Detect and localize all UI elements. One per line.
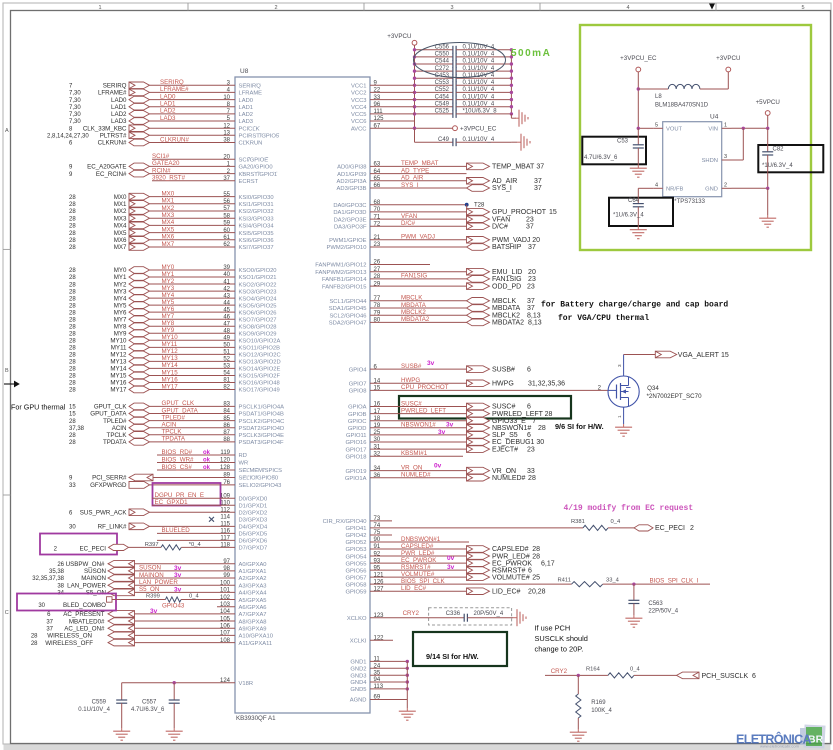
ellipse annotation around C556/C550/C544 — [414, 43, 506, 78]
svg-text:HWPG: HWPG — [401, 377, 420, 384]
svg-text:1: 1 — [724, 122, 727, 128]
off-page connector LAD0 — [129, 96, 150, 103]
U8 left pin names — [239, 84, 285, 687]
svg-text:MY12: MY12 — [110, 352, 127, 359]
svg-text:C552: C552 — [435, 87, 450, 93]
svg-text:MX5: MX5 — [114, 230, 127, 237]
svg-text:MY7: MY7 — [162, 313, 175, 320]
svg-text:TPCLK: TPCLK — [162, 429, 183, 436]
svg-text:FANPWM1/GPIO12: FANPWM1/GPIO12 — [315, 263, 366, 269]
svg-text:D/C#: D/C# — [401, 220, 416, 227]
svg-text:ACIN: ACIN — [162, 422, 177, 429]
capacitor C553 — [415, 84, 453, 86]
ground — [623, 424, 625, 427]
svg-text:28: 28 — [69, 231, 76, 237]
svg-text:BLED_COMBO: BLED_COMBO — [63, 602, 106, 609]
svg-text:*2N7002EPT_SC70: *2N7002EPT_SC70 — [647, 393, 703, 400]
off-page connector GPUT_CLK — [129, 403, 150, 410]
svg-text:C64: C64 — [628, 198, 640, 204]
svg-text:33_4: 33_4 — [606, 578, 620, 584]
wire net RCIN# — [150, 173, 236, 175]
top border marker arrow — [709, 4, 715, 10]
svg-text:KSO10/GPIO2A: KSO10/GPIO2A — [239, 339, 281, 345]
svg-text:MY3: MY3 — [114, 288, 127, 295]
svg-text:A10/GPXA10: A10/GPXA10 — [239, 634, 273, 640]
svg-text:MX1: MX1 — [162, 198, 175, 205]
svg-text:NBSWON1#: NBSWON1# — [492, 425, 531, 432]
svg-text:C272: C272 — [435, 66, 450, 72]
svg-text:C49: C49 — [438, 137, 450, 143]
svg-text:30: 30 — [536, 439, 544, 446]
wire net LAD0 — [150, 99, 236, 101]
off-page connector NUMLED# — [467, 474, 490, 481]
svg-text:PWR_LED#: PWR_LED# — [401, 550, 435, 557]
svg-text:MY1: MY1 — [162, 271, 175, 278]
svg-text:C559: C559 — [92, 700, 107, 706]
wire net KBSMI#1 — [370, 455, 463, 457]
svg-text:A3/GPXA3: A3/GPXA3 — [239, 583, 267, 589]
svg-text:AD0/GPI38: AD0/GPI38 — [337, 165, 366, 171]
wire net GPU_PROCHOT — [370, 211, 467, 213]
wire VIN net — [767, 115, 769, 128]
wire net RF_LINK# — [150, 525, 236, 527]
svg-text:*1U/6.3V_4: *1U/6.3V_4 — [613, 213, 644, 219]
svg-text:KBSMI#1: KBSMI#1 — [401, 450, 428, 457]
purple highlight box EC_PECI — [40, 534, 117, 555]
wire net MY2 — [150, 283, 236, 285]
wire net PWRLED_LEFT — [370, 413, 467, 415]
svg-text:AVCC: AVCC — [351, 126, 367, 132]
svg-text:28: 28 — [69, 339, 76, 345]
svg-text:EC_GPXD1: EC_GPXD1 — [155, 499, 189, 506]
svg-text:HWPG: HWPG — [492, 381, 514, 388]
off-page connector MY1 — [129, 274, 150, 281]
wire net VFAN — [370, 218, 467, 220]
svg-text:8,13: 8,13 — [527, 312, 541, 319]
svg-text:0.1U/10V_4: 0.1U/10V_4 — [463, 59, 495, 65]
svg-text:37,38: 37,38 — [69, 426, 85, 432]
svg-text:+3VPCU_EC: +3VPCU_EC — [620, 55, 657, 62]
svg-text:VFAN: VFAN — [401, 213, 417, 220]
no-connect X pin 114 — [209, 517, 214, 522]
svg-text:MY9: MY9 — [162, 327, 175, 334]
off-page connector GPIO33_E — [467, 417, 490, 424]
svg-text:SDA2/GPIO47: SDA2/GPIO47 — [329, 321, 367, 327]
svg-text:PCIRST/GPIO5: PCIRST/GPIO5 — [239, 134, 280, 140]
svg-text:PWM_VADJ: PWM_VADJ — [401, 234, 435, 241]
off-page connector TPDATA — [129, 439, 150, 446]
ground — [511, 141, 517, 143]
off-page connector SERIRQ — [129, 82, 150, 89]
svg-text:FANPWM2/GPIO13: FANPWM2/GPIO13 — [315, 270, 366, 276]
svg-text:GPIOB: GPIOB — [348, 412, 366, 418]
svg-text:CAPSLED#: CAPSLED# — [492, 546, 529, 553]
wire net TPCLK — [150, 434, 236, 436]
wire net MX7 — [150, 246, 236, 248]
svg-text:GPIO33_E: GPIO33_E — [492, 418, 526, 425]
off-page connector MX3 — [129, 215, 150, 222]
wire stub XCLKI — [370, 639, 393, 641]
ground — [513, 617, 517, 619]
left border marker arrow — [4, 383, 14, 385]
wire net MY17 — [150, 389, 236, 391]
svg-text:LID_EC#: LID_EC# — [401, 585, 427, 592]
svg-text:SCL1/GPIO44: SCL1/GPIO44 — [329, 299, 367, 305]
off-page connector LFRAME# — [129, 89, 150, 96]
wire net BATSHIP — [370, 246, 467, 248]
off-page connector AD_AIR — [467, 178, 490, 185]
svg-text:R164: R164 — [586, 667, 601, 673]
svg-text:A6/GPXA6: A6/GPXA6 — [239, 605, 267, 611]
svg-text:3v: 3v — [446, 422, 454, 429]
wire net USBPW_ON# — [135, 563, 236, 565]
svg-text:GPUT_CLK: GPUT_CLK — [94, 404, 128, 411]
U8 right pin numbers — [374, 81, 385, 701]
off-page connector MY13 — [129, 358, 150, 365]
svg-text:15: 15 — [721, 352, 729, 359]
svg-text:MX4: MX4 — [162, 219, 175, 226]
svg-text:6: 6 — [528, 567, 532, 574]
svg-text:MBCLK: MBCLK — [401, 295, 423, 302]
svg-text:C550: C550 — [435, 52, 450, 58]
svg-text:KSO13/GPIO2D: KSO13/GPIO2D — [239, 360, 281, 366]
svg-text:LAD2: LAD2 — [160, 108, 176, 115]
wire net BIOS_WR# — [157, 462, 235, 464]
off-page connector VGA_ALERT — [655, 351, 676, 358]
off-page connector FAN1SIG — [467, 276, 490, 283]
svg-text:MY15: MY15 — [110, 373, 127, 380]
svg-text:GPIO16: GPIO16 — [346, 440, 367, 446]
svg-text:PWM1/GPIOE: PWM1/GPIOE — [329, 238, 366, 244]
svg-text:MX0: MX0 — [162, 190, 175, 197]
svg-text:C544: C544 — [435, 59, 450, 65]
svg-text:28: 28 — [69, 216, 76, 222]
svg-text:KSI4/GPIO34: KSI4/GPIO34 — [239, 224, 275, 230]
svg-text:PSCLK1/GPIO4A: PSCLK1/GPIO4A — [239, 405, 285, 411]
svg-text:28: 28 — [69, 360, 76, 366]
wire net LAD3 — [150, 120, 236, 122]
resistor R381 — [583, 525, 608, 530]
svg-text:6: 6 — [527, 432, 531, 439]
svg-text:NR/FB: NR/FB — [666, 187, 684, 193]
svg-text:AD1/GPI39: AD1/GPI39 — [337, 172, 366, 178]
off-page connector AC_LED_ON# — [108, 625, 135, 632]
wire GND — [370, 667, 407, 669]
U4 pin stubs and numbers — [653, 127, 662, 129]
svg-text:GPIO4: GPIO4 — [349, 367, 367, 373]
svg-text:0.1U/10V_4: 0.1U/10V_4 — [463, 45, 495, 51]
svg-text:GPIO52: GPIO52 — [346, 540, 367, 546]
svg-text:KSO4/GPIO24: KSO4/GPIO24 — [239, 296, 278, 302]
svg-text:SDA1/GPIO45: SDA1/GPIO45 — [329, 306, 367, 312]
svg-text:D6/GPXD6: D6/GPXD6 — [239, 539, 268, 545]
capacitor C559 — [121, 683, 123, 700]
off-page connector SUSB# — [467, 366, 490, 373]
wire net TEMP_MBAT — [370, 165, 467, 167]
off-page connector SYS_I — [467, 185, 490, 192]
svg-text:MX2: MX2 — [114, 208, 127, 215]
off-page connector GFXPWRGD — [129, 482, 150, 489]
off-page connector MAINON — [108, 575, 135, 582]
svg-text:GPIO55: GPIO55 — [346, 561, 367, 567]
off-page connector TPCLK — [129, 432, 150, 439]
svg-text:5: 5 — [655, 122, 658, 128]
capacitor C544 — [415, 63, 453, 65]
svg-text:114: 114 — [220, 514, 230, 520]
svg-text:PLTRST#: PLTRST# — [100, 133, 127, 140]
ground — [767, 215, 769, 218]
dark green box SUSC#/PWRLED_LEFT — [399, 396, 571, 419]
svg-text:37: 37 — [528, 244, 536, 251]
svg-text:28: 28 — [69, 275, 76, 281]
wire net EC_PECI right — [370, 527, 583, 529]
svg-text:KB3930QF A1: KB3930QF A1 — [236, 715, 276, 722]
svg-text:26: 26 — [57, 562, 64, 568]
svg-text:37: 37 — [46, 626, 53, 632]
off-page connector BATSHIP — [467, 244, 490, 251]
svg-text:28: 28 — [69, 289, 76, 295]
svg-text:PSCLK2/GPIO4C: PSCLK2/GPIO4C — [239, 419, 285, 425]
off-page connector MY12 — [129, 351, 150, 358]
off-page connector MBCLK — [467, 298, 490, 305]
svg-text:0.1U/10V_4: 0.1U/10V_4 — [463, 94, 495, 100]
off-page connector GPUT_DATA — [129, 410, 150, 417]
svg-text:AC_PRESENT: AC_PRESENT — [63, 611, 104, 618]
svg-text:MY10: MY10 — [162, 334, 179, 341]
svg-text:KSI3/GPIO33: KSI3/GPIO33 — [239, 216, 274, 222]
svg-text:PCH_SUSCLK: PCH_SUSCLK — [702, 673, 749, 680]
svg-text:SUSB#: SUSB# — [401, 363, 422, 370]
svg-text:GPIO43: GPIO43 — [162, 603, 185, 610]
svg-text:VCC5: VCC5 — [351, 112, 366, 118]
svg-text:VCC6: VCC6 — [351, 119, 366, 125]
wire net SCI1# — [152, 158, 235, 160]
svg-text:CLKRUN: CLKRUN — [239, 141, 263, 147]
capacitor C556 — [415, 49, 453, 51]
svg-text:MY11: MY11 — [162, 341, 178, 348]
svg-text:LAD0: LAD0 — [239, 98, 254, 104]
svg-text:KSI5/GPIO35: KSI5/GPIO35 — [239, 231, 274, 237]
svg-text:7: 7 — [532, 418, 536, 425]
off-page connector PLTRST# — [129, 132, 150, 139]
svg-text:RD: RD — [239, 453, 247, 459]
svg-text:D0/GPXD0: D0/GPXD0 — [239, 496, 268, 502]
svg-text:MY1: MY1 — [114, 274, 127, 281]
svg-text:28: 28 — [69, 353, 76, 359]
svg-text:0.1U/10V_4: 0.1U/10V_4 — [463, 87, 495, 93]
wire net NBSWON1# — [370, 427, 467, 429]
wire net EC_GPXD1 — [152, 504, 235, 506]
off-page connector MY8 — [129, 323, 150, 330]
off-page connector HWPG — [467, 380, 490, 387]
svg-text:D7/GPXD7: D7/GPXD7 — [239, 546, 268, 552]
off-page connector SUS_PWR_ACK — [129, 509, 150, 516]
wire stub pin 103 — [217, 606, 235, 608]
wire net MY12 — [150, 353, 236, 355]
wire ground bus — [406, 661, 408, 708]
svg-text:BIOS_CS#: BIOS_CS# — [162, 464, 193, 471]
wire net AD_AIR — [370, 180, 467, 182]
svg-text:30: 30 — [38, 603, 45, 609]
svg-text:0.1U/10V_4: 0.1U/10V_4 — [463, 137, 495, 143]
svg-text:37: 37 — [526, 224, 534, 231]
svg-text:TPCLK: TPCLK — [107, 432, 128, 439]
svg-text:AD_AIR: AD_AIR — [401, 175, 424, 182]
svg-text:SHDN: SHDN — [702, 158, 718, 164]
svg-text:28: 28 — [69, 209, 76, 215]
capacitor C49 — [414, 128, 416, 142]
svg-text:KSO2/GPIO22: KSO2/GPIO22 — [239, 282, 277, 288]
wire net MAINON — [135, 577, 236, 579]
svg-text:C336: C336 — [446, 611, 461, 617]
svg-text:KSO11/GPIO2B: KSO11/GPIO2B — [239, 346, 281, 352]
svg-text:R381: R381 — [571, 519, 585, 525]
wire net EMU_LID — [370, 271, 467, 273]
svg-text:MY2: MY2 — [114, 281, 127, 288]
wire net EC_DEBUG1 — [370, 441, 467, 443]
wire stub pin 73 — [370, 520, 392, 522]
wire net MBDATA2 — [370, 321, 467, 323]
svg-text:PCICLK: PCICLK — [239, 126, 260, 132]
purple highlight box BLED_COMBO — [17, 594, 116, 611]
svg-text:EMU_LID: EMU_LID — [492, 269, 522, 276]
svg-text:CLK_33M_KBC: CLK_33M_KBC — [83, 125, 127, 132]
wire net +3VPCU_EC (AVCC) — [370, 127, 453, 129]
svg-text:GPIO18: GPIO18 — [346, 454, 367, 460]
wire net VOLMUTE# — [370, 576, 467, 578]
svg-text:LFRAME#: LFRAME# — [98, 90, 127, 97]
svg-text:CRY2: CRY2 — [403, 610, 420, 617]
svg-text:3v: 3v — [150, 608, 158, 615]
wire net SUSC# — [370, 406, 467, 408]
wire net ACIN — [150, 427, 236, 429]
off-page connector EC_PWROK — [467, 560, 490, 567]
svg-text:EC_PWROK: EC_PWROK — [401, 557, 437, 564]
svg-text:3: 3 — [617, 364, 622, 367]
capacitor C453 — [415, 77, 453, 79]
wire net MX0 — [150, 196, 236, 198]
wire net MY1 — [150, 276, 236, 278]
regulator U4 TPS73133 — [663, 122, 722, 197]
svg-text:20,28: 20,28 — [528, 588, 546, 595]
wire — [466, 205, 468, 227]
wire net MX4 — [150, 224, 236, 226]
svg-text:U4: U4 — [710, 114, 719, 121]
svg-text:MBCLK2: MBCLK2 — [401, 309, 426, 316]
svg-text:DNBSWON#1: DNBSWON#1 — [401, 536, 441, 543]
svg-text:28: 28 — [31, 641, 38, 647]
wire — [637, 72, 639, 128]
svg-text:GPUT_CLK: GPUT_CLK — [162, 400, 196, 407]
svg-text:ACIN: ACIN — [112, 425, 127, 432]
svg-text:S5_ON: S5_ON — [139, 586, 159, 593]
svg-text:A9/GPXA9: A9/GPXA9 — [239, 626, 267, 632]
off-page connector MX7 — [129, 244, 150, 251]
svg-text:PWM2/GPIO10: PWM2/GPIO10 — [327, 245, 367, 251]
svg-text:SELMEM/SPICS: SELMEM/SPICS — [239, 468, 283, 474]
svg-text:SERIRQ: SERIRQ — [239, 84, 262, 90]
svg-text:KSI6/GPIO36: KSI6/GPIO36 — [239, 238, 274, 244]
svg-text:23: 23 — [526, 216, 534, 223]
svg-text:KSO16/GPIO48: KSO16/GPIO48 — [239, 381, 280, 387]
svg-text:6: 6 — [752, 673, 756, 680]
svg-text:LAD2: LAD2 — [111, 111, 127, 118]
svg-text:0.1U/10V_4: 0.1U/10V_4 — [463, 66, 495, 72]
svg-text:CIR_RX/GPIO40: CIR_RX/GPIO40 — [323, 519, 367, 525]
svg-text:MX1: MX1 — [114, 201, 127, 208]
svg-text:WR: WR — [239, 461, 249, 467]
svg-text:D1/GPXD1: D1/GPXD1 — [239, 503, 268, 509]
svg-text:37: 37 — [536, 164, 544, 171]
wire net T28 — [370, 204, 467, 206]
svg-text:3920_RST#: 3920_RST# — [152, 175, 186, 182]
svg-text:GPIOC: GPIOC — [348, 419, 367, 425]
svg-text:NUMLED#: NUMLED# — [401, 472, 431, 479]
svg-text:28: 28 — [69, 367, 76, 373]
off-page connector MY14 — [129, 365, 150, 372]
svg-text:KSO0/GPIO20: KSO0/GPIO20 — [239, 268, 277, 274]
svg-text:MY8: MY8 — [114, 323, 127, 330]
wire net GPUT_CLK — [150, 405, 236, 407]
svg-text:33: 33 — [527, 468, 535, 475]
U8 left pin numbers — [220, 81, 231, 684]
off-page connector MX6 — [129, 237, 150, 244]
wire net 3920_RST# — [152, 180, 235, 182]
svg-text:6,17: 6,17 — [541, 560, 555, 567]
wire net MY0 — [150, 269, 236, 271]
svg-text:MY17: MY17 — [162, 383, 179, 390]
wire net MBATLED0# — [135, 620, 236, 622]
svg-text:32,35,37,38: 32,35,37,38 — [32, 576, 64, 582]
off-page connector MBDATA — [467, 305, 490, 312]
svg-text:GFXPWRGD: GFXPWRGD — [90, 482, 127, 489]
svg-text:15: 15 — [69, 405, 76, 411]
off-page connector MY16 — [129, 379, 150, 386]
svg-text:If use PCH: If use PCH — [535, 624, 571, 633]
wire NR/FB net — [638, 187, 653, 189]
svg-text:GND2: GND2 — [350, 667, 366, 673]
off-page connector LAD3 — [129, 118, 150, 125]
wire — [181, 546, 235, 548]
svg-text:GPIO7: GPIO7 — [349, 382, 367, 388]
svg-text:D5/GPXD5: D5/GPXD5 — [239, 532, 268, 538]
svg-text:GA20/GPIO0: GA20/GPIO0 — [239, 165, 273, 171]
svg-text:LAN_POWER: LAN_POWER — [67, 582, 106, 589]
wire net LAN_POWER — [135, 584, 236, 586]
off-page connector CLK_33M_KBC — [129, 125, 150, 132]
off-page connector S5_ON — [108, 589, 135, 596]
wire net LAD2 — [150, 113, 236, 115]
svg-text:MBCLK: MBCLK — [492, 298, 516, 305]
off-page connector LAD1 — [129, 103, 150, 110]
svg-text:28: 28 — [532, 546, 540, 553]
ground — [121, 728, 123, 731]
svg-text:MY14: MY14 — [162, 362, 179, 369]
svg-text:7,30: 7,30 — [69, 98, 81, 104]
svg-text:*10U/6.3V_8: *10U/6.3V_8 — [463, 109, 498, 115]
ground — [637, 165, 639, 168]
wire GND — [370, 674, 407, 676]
wire net ODD_PD — [370, 285, 467, 287]
off-page connector MX0 — [129, 193, 150, 200]
wire net MY6 — [150, 311, 236, 313]
svg-text:USBPW_ON#: USBPW_ON# — [66, 561, 105, 568]
off-page connector MY6 — [129, 309, 150, 316]
svg-text:MBDATA2: MBDATA2 — [401, 316, 430, 323]
svg-text:KSO9/GPIO29: KSO9/GPIO29 — [239, 331, 277, 337]
off-page connector LAN_POWER — [108, 582, 135, 589]
off-page connector TEMP_MBAT — [467, 163, 490, 170]
